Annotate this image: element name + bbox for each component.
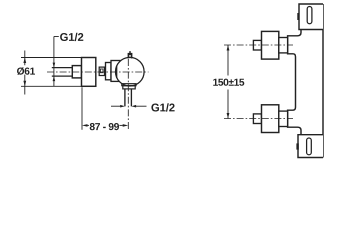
- leader tick G1/2 inlet: [54, 36, 59, 38]
- label 150±15: [213, 79, 244, 86]
- union nut (side view): [72, 66, 81, 78]
- bottom fixing slot: [307, 138, 312, 155]
- shower outlet pipe: [125, 89, 131, 107]
- extension line bottom of flange (Ø61): [21, 85, 82, 87]
- body block B: [111, 61, 120, 82]
- arrowhead G1/2 outlet right: [131, 105, 136, 108]
- column body left contour: [288, 30, 301, 135]
- top inlet square stub: [253, 40, 261, 50]
- arrowhead G1/2 lower: [53, 76, 56, 81]
- top wall bracket plate: [299, 4, 323, 30]
- arrowhead 150±15 top: [227, 45, 230, 51]
- neck collar: [123, 86, 135, 89]
- dimension line 87-99 right stub: [119, 124, 123, 126]
- top clip tab: [297, 13, 299, 20]
- chord line body-handle joint: [116, 66, 118, 78]
- bottom inlet union nut: [262, 105, 279, 133]
- bottom inlet centerline: [224, 118, 293, 120]
- arrowhead Ø61 top: [23, 58, 26, 64]
- dimension line G1/2 outlet left part: [111, 105, 120, 107]
- neck upper below handle: [122, 84, 136, 86]
- arrowhead G1/2 upper: [53, 63, 56, 68]
- arrowhead Ø61 bottom: [23, 81, 26, 87]
- label 87 - 99: [90, 123, 119, 130]
- arrowhead 87-99 right: [123, 124, 129, 127]
- check valve inner square: [100, 69, 103, 73]
- dimension line Ø61: [24, 51, 26, 95]
- dimension line 150±15: [227, 45, 229, 119]
- arrowhead G1/2 outlet left: [120, 105, 125, 108]
- body block A: [106, 63, 112, 80]
- top inlet union nut: [262, 31, 279, 59]
- dimension line 87-99 left stub: [87, 124, 89, 126]
- bottom clip tab: [296, 143, 298, 149]
- dimension line G1/2 inlet: [53, 37, 55, 87]
- bottom inlet step piece: [279, 111, 288, 126]
- top fixing slot: [307, 7, 312, 24]
- dimension line G1/2 outlet right part: [136, 105, 147, 107]
- label G1/2 top: [60, 33, 83, 41]
- vertical centerline of outlet: [127, 59, 129, 130]
- top inlet step piece: [279, 38, 288, 53]
- arrowhead 150±15 bottom: [227, 113, 230, 119]
- top inlet centerline: [224, 44, 293, 46]
- handle knob circle: [116, 57, 145, 86]
- main horizontal centerline: [47, 71, 149, 73]
- inlet pipe (side view): [52, 68, 73, 77]
- arrowhead 87-99 left: [82, 124, 88, 127]
- wall flange Ø61: [82, 58, 96, 87]
- bottom inlet square stub: [253, 114, 261, 124]
- temperature stop button on top: [128, 51, 133, 58]
- label G1/2 bottom: [151, 103, 174, 111]
- check valve square: [99, 67, 104, 75]
- right view: outer right edge: [322, 4, 324, 158]
- extension line wall plane (87-99): [81, 87, 83, 130]
- label Ø61: [17, 67, 35, 75]
- extension line top of flange (Ø61): [21, 57, 82, 59]
- bottom wall bracket plate: [298, 135, 323, 158]
